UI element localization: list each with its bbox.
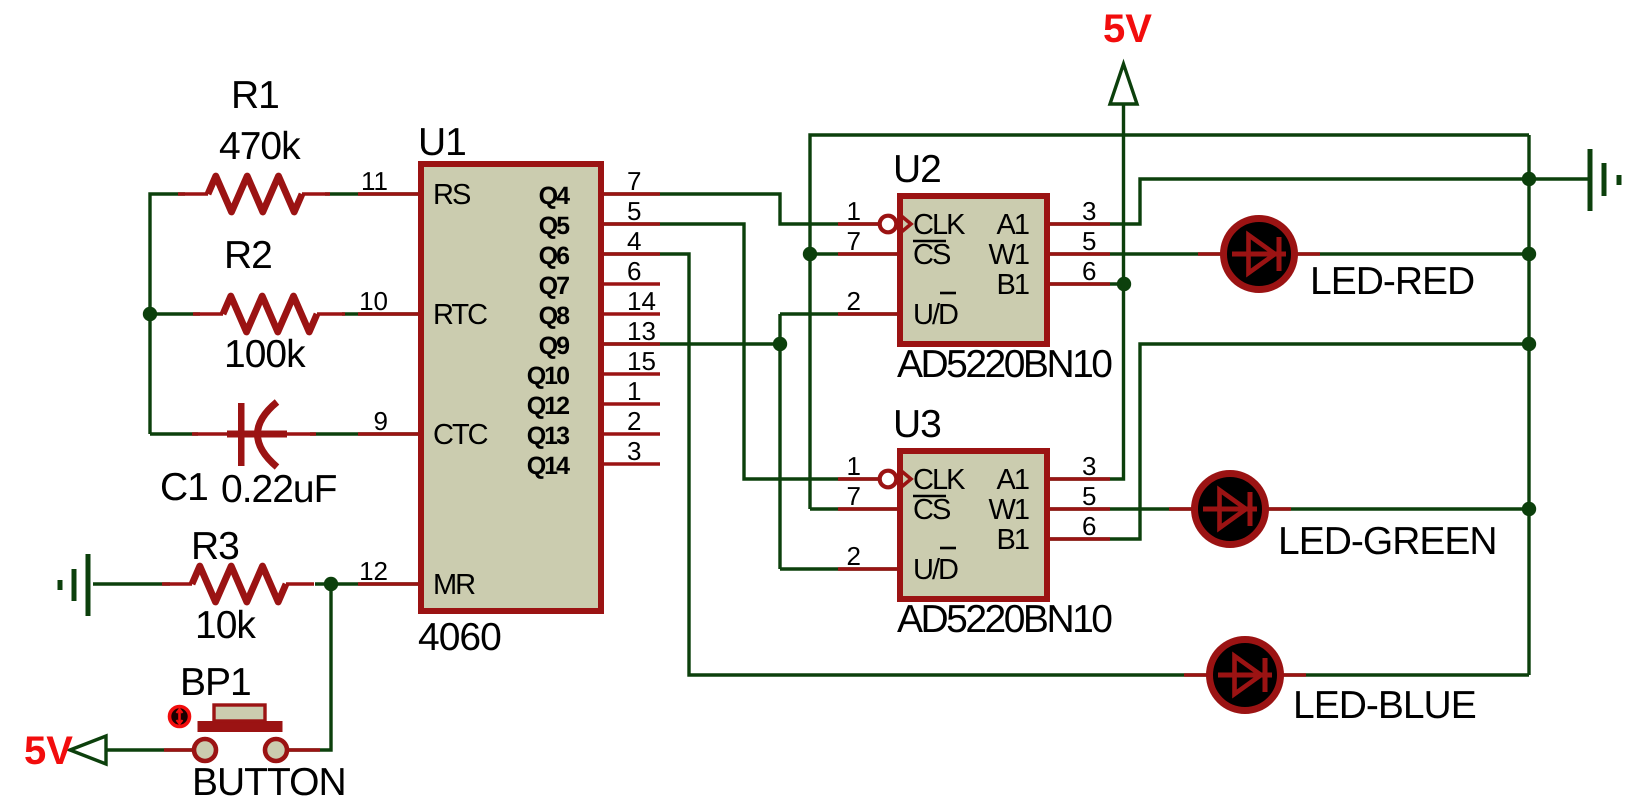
svg-text:C1: C1 [160,466,208,509]
svg-text:W1: W1 [989,239,1029,271]
pin stub Q5 U1 [604,222,660,226]
svg-text:U2: U2 [893,148,941,191]
pin stub Q10 U1 [604,372,660,376]
svg-text:100k: 100k [224,333,306,376]
IC U3 AD5220BN10 body [900,451,1047,599]
svg-text:R3: R3 [191,525,239,568]
power symbol 5V top arrow [1110,64,1137,104]
LED D2 LED-GREEN [1169,474,1291,545]
svg-text:Q5: Q5 [539,212,570,240]
svg-text:CLK: CLK [913,209,966,241]
capacitor C1 [192,402,316,467]
svg-text:10: 10 [359,286,388,316]
pin stub A1 U2 [1050,222,1110,226]
wire button right terminal up to MR node [289,584,331,750]
svg-text:MR: MR [433,569,475,601]
svg-text:Q6: Q6 [539,242,569,270]
svg-text:B1: B1 [997,524,1029,556]
pin stub RTC U1 [358,312,418,316]
svg-text:Q8: Q8 [539,302,570,330]
wire ground to R3 [93,582,170,585]
svg-text:AD5220BN10: AD5220BN10 [897,343,1112,386]
svg-text:3: 3 [1082,451,1096,481]
svg-text:U1: U1 [418,121,466,164]
pin stub Q14 U1 [604,462,660,466]
wire Q9 node vertical U/D U2 to U/D U3 [604,314,898,569]
svg-text:2: 2 [847,541,861,571]
svg-text:BUTTON: BUTTON [192,761,346,804]
svg-text:U/D: U/D [913,299,958,331]
svg-text:U/D: U/D [913,554,958,586]
pin stub RS U1 [358,192,418,196]
svg-text:U3: U3 [893,403,941,446]
svg-text:7: 7 [847,226,861,256]
pin stub U/D U3 [838,567,897,571]
svg-text:A1: A1 [997,209,1029,241]
svg-text:12: 12 [359,556,388,586]
pin stub Q7 U1 [604,282,660,286]
svg-text:9: 9 [374,406,388,436]
svg-text:LED-BLUE: LED-BLUE [1293,684,1476,727]
svg-text:5V: 5V [24,729,73,773]
svg-text:7: 7 [847,481,861,511]
wire net: left vertical rail R1/R2/C1 [150,194,418,434]
svg-text:5: 5 [1082,226,1096,256]
svg-text:Q7: Q7 [539,272,569,300]
pin stub Q12 U1 [604,402,660,406]
wire 5V rail down to A1 U3, B1 U2 branch [1050,105,1124,479]
junction R2/left rail [143,307,157,321]
svg-text:A1: A1 [997,464,1029,496]
LED D1 LED-RED [1198,219,1320,290]
pin stub CS U3 [838,507,897,511]
wire R3 to MR [315,582,418,585]
pin stub Q4 U1 [604,192,660,196]
svg-text:14: 14 [627,286,656,316]
svg-text:Q13: Q13 [527,422,569,450]
svg-text:470k: 470k [219,125,301,168]
pin stub W1 U2 [1050,252,1110,256]
wire W1 U2 through LED-RED [1050,252,1529,255]
svg-text:6: 6 [1082,511,1096,541]
resistor R3 [162,566,314,602]
wire left rail to C1 [150,432,198,435]
svg-text:1: 1 [627,376,641,406]
svg-text:Q4: Q4 [539,182,570,210]
svg-text:4060: 4060 [418,616,501,659]
junction CS U2 [803,247,817,261]
svg-text:5: 5 [1082,481,1096,511]
push button BP1 [164,705,320,761]
svg-text:1: 1 [847,451,861,481]
button interactive marker [170,707,190,727]
svg-text:5V: 5V [1103,7,1152,51]
pin stub Q13 U1 [604,432,660,436]
ground symbol top right [1590,149,1619,211]
svg-text:Q10: Q10 [527,362,569,390]
resistor R1 [178,176,330,212]
pin stub Q6 U1 [604,252,660,256]
svg-text:CTC: CTC [433,419,488,451]
LED D3 LED-BLUE [1184,640,1306,711]
svg-text:6: 6 [1082,256,1096,286]
junction LED-GREEN right [1522,502,1536,516]
junction LED-RED right [1522,247,1536,261]
junction ground rail [1522,172,1536,186]
pin stub U/D U2 [838,312,897,316]
pin stub CTC U1 [358,432,418,436]
svg-text:CS: CS [913,239,951,271]
svg-text:Q9: Q9 [539,332,569,360]
pin stub B1 U2 [1050,282,1110,286]
junction Q9 node [773,337,787,351]
svg-text:B1: B1 [997,269,1029,301]
svg-text:15: 15 [627,346,656,376]
junction mid rail right [1522,337,1536,351]
svg-text:13: 13 [627,316,656,346]
svg-text:5: 5 [627,196,641,226]
wire CS net: top rail and CS pins [810,135,1529,509]
pin stub MR U1 [358,582,418,586]
wire B1 U3 up to mid rail [1050,344,1529,539]
svg-text:4: 4 [627,226,641,256]
pin stub CLK U2 with inversion bubble [838,216,911,233]
wire Q4 to CLK U2 [604,194,881,224]
svg-text:R1: R1 [231,74,279,117]
svg-text:Q12: Q12 [527,392,569,420]
pin stub A1 U3 [1050,477,1110,481]
svg-text:W1: W1 [989,494,1029,526]
pin stub B1 U3 [1050,537,1110,541]
wire W1 U3 through LED-GREEN [1050,507,1529,510]
junction MR/R3/button [324,577,338,591]
IC U2 AD5220BN10 body [900,196,1047,344]
wire Q5 to CLK U3 [604,224,881,479]
svg-text:2: 2 [847,286,861,316]
svg-text:0.22uF: 0.22uF [221,468,337,511]
resistor R2 [193,296,345,332]
svg-text:3: 3 [627,436,641,466]
svg-text:LED-RED: LED-RED [1310,260,1474,303]
wire R2 to RTC [342,312,418,315]
wire right vertical rail [1527,135,1530,675]
svg-text:3: 3 [1082,196,1096,226]
svg-text:7: 7 [627,166,641,196]
svg-text:2: 2 [627,406,641,436]
wire Q6 to LED-BLUE row [604,254,1529,675]
svg-text:LED-GREEN: LED-GREEN [1278,520,1497,563]
wire C1 to CTC [310,432,418,435]
svg-text:CLK: CLK [913,464,966,496]
svg-text:AD5220BN10: AD5220BN10 [897,598,1112,641]
svg-text:CS: CS [913,494,951,526]
svg-text:R2: R2 [224,234,272,277]
pin stub Q8 U1 [604,312,660,316]
pin stub CS U2 [838,252,897,256]
svg-text:Q14: Q14 [527,452,570,480]
ground symbol left [60,554,88,616]
svg-text:RTC: RTC [433,299,487,331]
wire 5V to button left terminal [106,748,192,751]
svg-text:1: 1 [847,196,861,226]
pin stub CLK U3 with inversion bubble [838,471,911,488]
svg-text:6: 6 [627,256,641,286]
wire A1 U2 to ground rail [1050,179,1588,224]
svg-text:BP1: BP1 [180,661,251,704]
svg-text:RS: RS [433,179,471,211]
svg-text:10k: 10k [195,604,256,647]
wire left rail to R2 [150,312,200,315]
pin stub W1 U3 [1050,507,1110,511]
IC U1 4060 body [421,164,601,611]
power symbol 5V left arrow [70,736,106,764]
pin stub Q9 U1 [604,342,660,346]
junction B1 U2 on 5V rail [1117,277,1131,291]
svg-text:11: 11 [361,166,388,196]
